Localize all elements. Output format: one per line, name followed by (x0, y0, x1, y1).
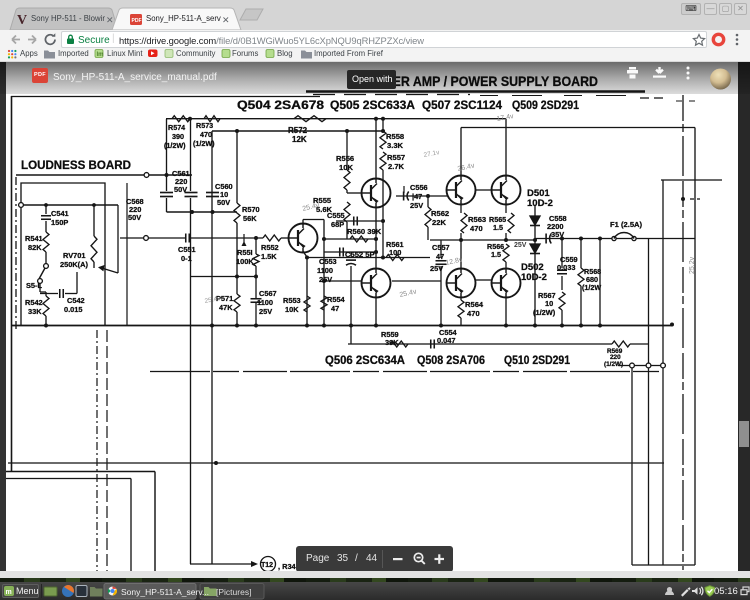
wire - Q507 collector (460, 128, 462, 177)
svg-text:R573: R573 (196, 121, 213, 130)
svg-text:, R34: , R34 (278, 562, 297, 571)
wire - Q504 emitter (303, 251, 307, 325)
svg-text:V: V (17, 13, 27, 28)
bottom strips (0, 571, 750, 578)
capacitor C555 (336, 220, 383, 222)
wire - upper left bus (16, 174, 192, 176)
svg-text:Q509 2SD291: Q509 2SD291 (512, 100, 580, 112)
resistor R561 (386, 255, 404, 261)
transistor Q504 (289, 224, 318, 253)
resistor R565 (505, 205, 507, 214)
junction node (322, 237, 326, 241)
taskbar (0, 582, 750, 600)
wire - Q510 emitter (505, 298, 507, 326)
svg-text:3.3K: 3.3K (387, 141, 404, 150)
svg-text:0.047: 0.047 (437, 336, 456, 345)
bookmarks (0, 48, 750, 62)
resistor R558 (382, 119, 384, 131)
svg-text:50V: 50V (174, 185, 187, 194)
svg-text:17.4v: 17.4v (496, 113, 515, 123)
svg-text:390: 390 (172, 132, 184, 141)
svg-text:Q508 2SA706: Q508 2SA706 (417, 355, 485, 367)
resistor R551 (254, 236, 258, 240)
svg-text:56K: 56K (243, 214, 257, 223)
wire - right border vertical (694, 128, 696, 566)
wire - long vertical (second) (211, 131, 213, 564)
wire - right top corner (461, 127, 695, 129)
svg-text:25V: 25V (430, 264, 443, 273)
title bar (0, 0, 750, 30)
wire - Q508 collector (460, 240, 462, 269)
wire - vertical right (599, 239, 601, 326)
svg-text:39K: 39K (385, 338, 399, 347)
svg-text:C556: C556 (410, 183, 428, 192)
svg-text:R556: R556 (336, 154, 354, 163)
node T12 (261, 557, 276, 572)
more vert (687, 67, 690, 70)
svg-text:R563: R563 (468, 215, 486, 224)
svg-text:R558: R558 (386, 132, 404, 141)
svg-text:LOUDNESS BOARD: LOUDNESS BOARD (21, 158, 131, 172)
resistor R570 (236, 131, 238, 203)
svg-text:R554: R554 (327, 295, 346, 304)
svg-text:R564: R564 (465, 300, 484, 309)
wire - bottom-left corner lines (6, 471, 155, 473)
wire - long horizontal near bottom (8, 462, 664, 464)
resistor R556 (346, 131, 348, 170)
tray icons (665, 587, 674, 595)
wire - output rail with fuse (535, 238, 695, 240)
junction node (214, 461, 218, 465)
loudness board dash-dot outline left (15, 177, 17, 330)
svg-text:1100: 1100 (317, 266, 333, 275)
schematic top frame line (11, 96, 320, 98)
diode D501 (534, 205, 536, 216)
pdf toolbar overlay (0, 62, 750, 94)
wire - Q507/Q509 link (476, 189, 492, 191)
transistor Q509 (492, 176, 521, 205)
capacitor C554 (430, 340, 432, 349)
svg-text:0.033: 0.033 (557, 263, 576, 272)
svg-text:470: 470 (467, 309, 480, 318)
svg-text:1.5: 1.5 (491, 250, 501, 259)
resistor R569 (612, 341, 630, 347)
svg-text:C557: C557 (432, 243, 450, 252)
wire - base lead Q504 (281, 237, 289, 239)
svg-text:✕: ✕ (106, 15, 114, 25)
capacitor C556 (396, 195, 447, 197)
window button 1 (104, 584, 196, 600)
junction node (349, 324, 353, 328)
resistor R571 (234, 294, 240, 312)
svg-text:1.5: 1.5 (493, 223, 503, 232)
svg-text:RV701: RV701 (63, 251, 85, 260)
junction node (670, 323, 674, 327)
wire - loudness top wire (23, 204, 118, 206)
download icon (653, 67, 666, 78)
potentiometer RV701 (93, 205, 95, 236)
resistor R574 (on top bus) (172, 116, 190, 122)
svg-text:Q504 2SA678: Q504 2SA678 (237, 100, 325, 112)
viewer side strips (0, 62, 6, 571)
wire - Q505 base lead (346, 190, 348, 193)
loudness board inner box (21, 183, 105, 326)
wire - wiper feed (117, 205, 119, 273)
junction node (322, 279, 326, 283)
svg-text:C551: C551 (178, 245, 196, 254)
svg-text:50V: 50V (217, 198, 230, 207)
scan smudges top right (640, 97, 668, 99)
svg-text:10: 10 (545, 299, 553, 308)
svg-text:R553: R553 (283, 296, 301, 305)
junction node (190, 210, 194, 214)
page pill (296, 546, 453, 572)
svg-text:25V: 25V (259, 307, 272, 316)
resistor R573 (on top bus) (204, 116, 220, 122)
wire - Q509 collector (505, 119, 507, 176)
three dots (736, 34, 739, 37)
resistor R564 (460, 298, 462, 301)
wire - Q505 collector (375, 119, 377, 179)
capacitor C552 (339, 248, 341, 257)
window button 2 (200, 584, 264, 600)
svg-text:0-1: 0-1 (181, 254, 192, 263)
svg-text:22K: 22K (432, 218, 446, 227)
resistor R572 (on top bus) (294, 116, 326, 122)
svg-text:470: 470 (200, 130, 212, 139)
resistor R542 (43, 296, 49, 316)
wire - ground bus y212 (167, 211, 238, 213)
svg-text:25V: 25V (410, 201, 423, 210)
wire - feedback row C552 (324, 251, 376, 253)
svg-text:47K: 47K (219, 303, 233, 312)
svg-text:C567: C567 (259, 289, 277, 298)
resistor R554 (321, 296, 327, 310)
svg-text:82K: 82K (28, 243, 42, 252)
resistor R560 (350, 236, 368, 242)
svg-text:25.4v: 25.4v (399, 288, 418, 299)
svg-text:R541: R541 (25, 234, 43, 243)
svg-text:R562: R562 (431, 209, 449, 218)
svg-text:F1 (2.5A): F1 (2.5A) (610, 220, 643, 229)
wire - dashed verticals lower left (96, 330, 98, 576)
print icon (627, 67, 638, 79)
opera ring (713, 34, 723, 44)
resistor R553 (304, 296, 310, 312)
reload (45, 35, 55, 45)
capacitor C553 (346, 259, 356, 261)
junction node (188, 117, 192, 121)
junction node (165, 173, 169, 177)
title underline (306, 90, 645, 93)
svg-text:2.7K: 2.7K (388, 162, 405, 171)
svg-text:(1/2W): (1/2W) (604, 361, 623, 368)
svg-text:25V: 25V (514, 242, 527, 249)
resistor R567 (559, 292, 565, 310)
wire - Q506 emitter (375, 298, 377, 326)
svg-text:C542: C542 (67, 296, 85, 305)
wire - main bottom bus (12, 325, 673, 327)
transistor Q510 (492, 269, 521, 298)
schematic page scan frame - left border line (11, 96, 13, 472)
wire - board edge right vertical (682, 95, 684, 570)
terminal node on box edge (19, 203, 24, 208)
svg-text:100: 100 (389, 248, 401, 257)
svg-text:(1/2W): (1/2W) (533, 308, 556, 317)
wire - lower horizontal line (150, 371, 663, 373)
capacitor C560 (206, 192, 219, 194)
star (693, 35, 704, 46)
wire - emitter row (307, 257, 430, 259)
wire - loudness inner vertical (126, 183, 128, 326)
svg-text:1100: 1100 (257, 298, 273, 307)
svg-text:26.4v: 26.4v (457, 162, 476, 173)
capacitor C558 (545, 234, 547, 244)
svg-text:C541: C541 (51, 209, 69, 218)
capacitor C551 (120, 237, 186, 239)
svg-text:T12: T12 (261, 562, 273, 569)
junction node (235, 129, 239, 133)
wire - collector row (324, 238, 376, 240)
wire - output terminals row (618, 365, 666, 367)
svg-text:R557: R557 (387, 153, 405, 162)
capacitor C568 (166, 119, 168, 191)
svg-text:lm: lm (97, 52, 104, 58)
svg-text:Q510 2SD291: Q510 2SD291 (504, 355, 571, 367)
resistor R557 (380, 152, 386, 170)
svg-text:m: m (6, 589, 12, 596)
potentiometer wiper arrow (100, 268, 118, 274)
back arrow (12, 36, 20, 44)
svg-text:50V: 50V (128, 213, 141, 222)
svg-text:47: 47 (436, 252, 444, 261)
svg-text:10K: 10K (285, 305, 299, 314)
wire - top supply bus (166, 118, 506, 120)
resistor R559 (390, 341, 408, 347)
wire - bottom wire to T12 (190, 563, 252, 565)
resistor R566 (503, 244, 509, 262)
transistor Q505 (362, 179, 391, 208)
svg-text:R570: R570 (242, 205, 260, 214)
resistor R552 (263, 235, 281, 241)
transistor Q507 (447, 176, 476, 205)
svg-text:Q505 2SC633A: Q505 2SC633A (330, 100, 415, 112)
resistor R555 (344, 202, 350, 222)
svg-text:33K: 33K (28, 307, 42, 316)
wire - right rail to terminal (600, 324, 672, 326)
svg-text:C553: C553 (319, 257, 337, 266)
wire - Q508 base lead (392, 280, 442, 282)
svg-text:Q506 2SC634A: Q506 2SC634A (325, 355, 405, 367)
svg-text:R542: R542 (25, 298, 43, 307)
resistor R563 (460, 205, 462, 214)
svg-text:0.015: 0.015 (64, 305, 83, 314)
svg-text:R574: R574 (168, 123, 185, 132)
resistor R541 (43, 232, 49, 252)
svg-text:PDF: PDF (132, 18, 142, 24)
svg-text:(1/2W: (1/2W (582, 283, 601, 292)
capacitor C542 (40, 291, 58, 293)
svg-text:C555: C555 (327, 211, 345, 220)
capacitor C559 (561, 239, 563, 269)
wire - bottom right link (632, 564, 695, 566)
capacitor C557 (440, 240, 442, 258)
svg-text:68P: 68P (331, 220, 344, 229)
svg-text:27.1v: 27.1v (423, 149, 441, 159)
diode D502 (530, 244, 540, 253)
toolbar (0, 30, 750, 48)
svg-text:100K: 100K (236, 257, 254, 266)
svg-text:R552: R552 (261, 243, 279, 252)
svg-text:470: 470 (470, 224, 483, 233)
switch S5-L contacts (44, 264, 49, 269)
wire - row at y276 (191, 276, 256, 278)
junction node (305, 256, 309, 260)
terminal node (144, 173, 149, 178)
capacitor C561 (190, 119, 192, 191)
svg-text:|47: |47 (412, 192, 422, 201)
wire - Q508/Q510 link (476, 279, 492, 281)
svg-text:10D-2: 10D-2 (521, 272, 547, 283)
svg-text:250K(A): 250K(A) (60, 260, 88, 269)
wire - second bus (212, 130, 383, 132)
wire - terminal verticals (631, 368, 633, 566)
lock icon (67, 39, 74, 45)
wire - mid rail (430, 239, 535, 241)
capacitor C541 (45, 205, 47, 214)
svg-text:1.5K: 1.5K (261, 252, 277, 261)
junction node (374, 117, 378, 121)
wire - switch to R542 (39, 283, 41, 292)
wire - R559/C554 row (348, 343, 612, 345)
resistor R562 (426, 194, 430, 198)
svg-text:47: 47 (331, 304, 339, 313)
svg-text:R55I: R55I (237, 248, 253, 257)
forward arrow (28, 36, 36, 44)
transistor Q506 (362, 269, 391, 298)
wire - Q505/Q506 link (375, 208, 377, 269)
svg-text:10D-2: 10D-2 (527, 198, 553, 209)
capacitor C567 (251, 298, 262, 300)
wire - long vertical (left) (190, 198, 192, 564)
svg-text:150P: 150P (51, 218, 68, 227)
svg-text:12K: 12K (292, 135, 307, 144)
wire - Q506 base lead (324, 280, 362, 282)
wire - Q504 collector link (302, 220, 304, 225)
junction node (211, 210, 215, 214)
resistor R568 (580, 239, 582, 269)
svg-text:25.2v: 25.2v (689, 256, 696, 274)
transistor Q508 (447, 269, 476, 298)
svg-text:(1/2W): (1/2W) (164, 141, 186, 150)
svg-text:✕: ✕ (222, 15, 230, 25)
svg-text:Q507 2SC1124: Q507 2SC1124 (422, 100, 503, 112)
svg-text:10K: 10K (339, 163, 353, 172)
svg-text:25V: 25V (319, 275, 332, 284)
svg-text:220: 220 (610, 354, 621, 361)
